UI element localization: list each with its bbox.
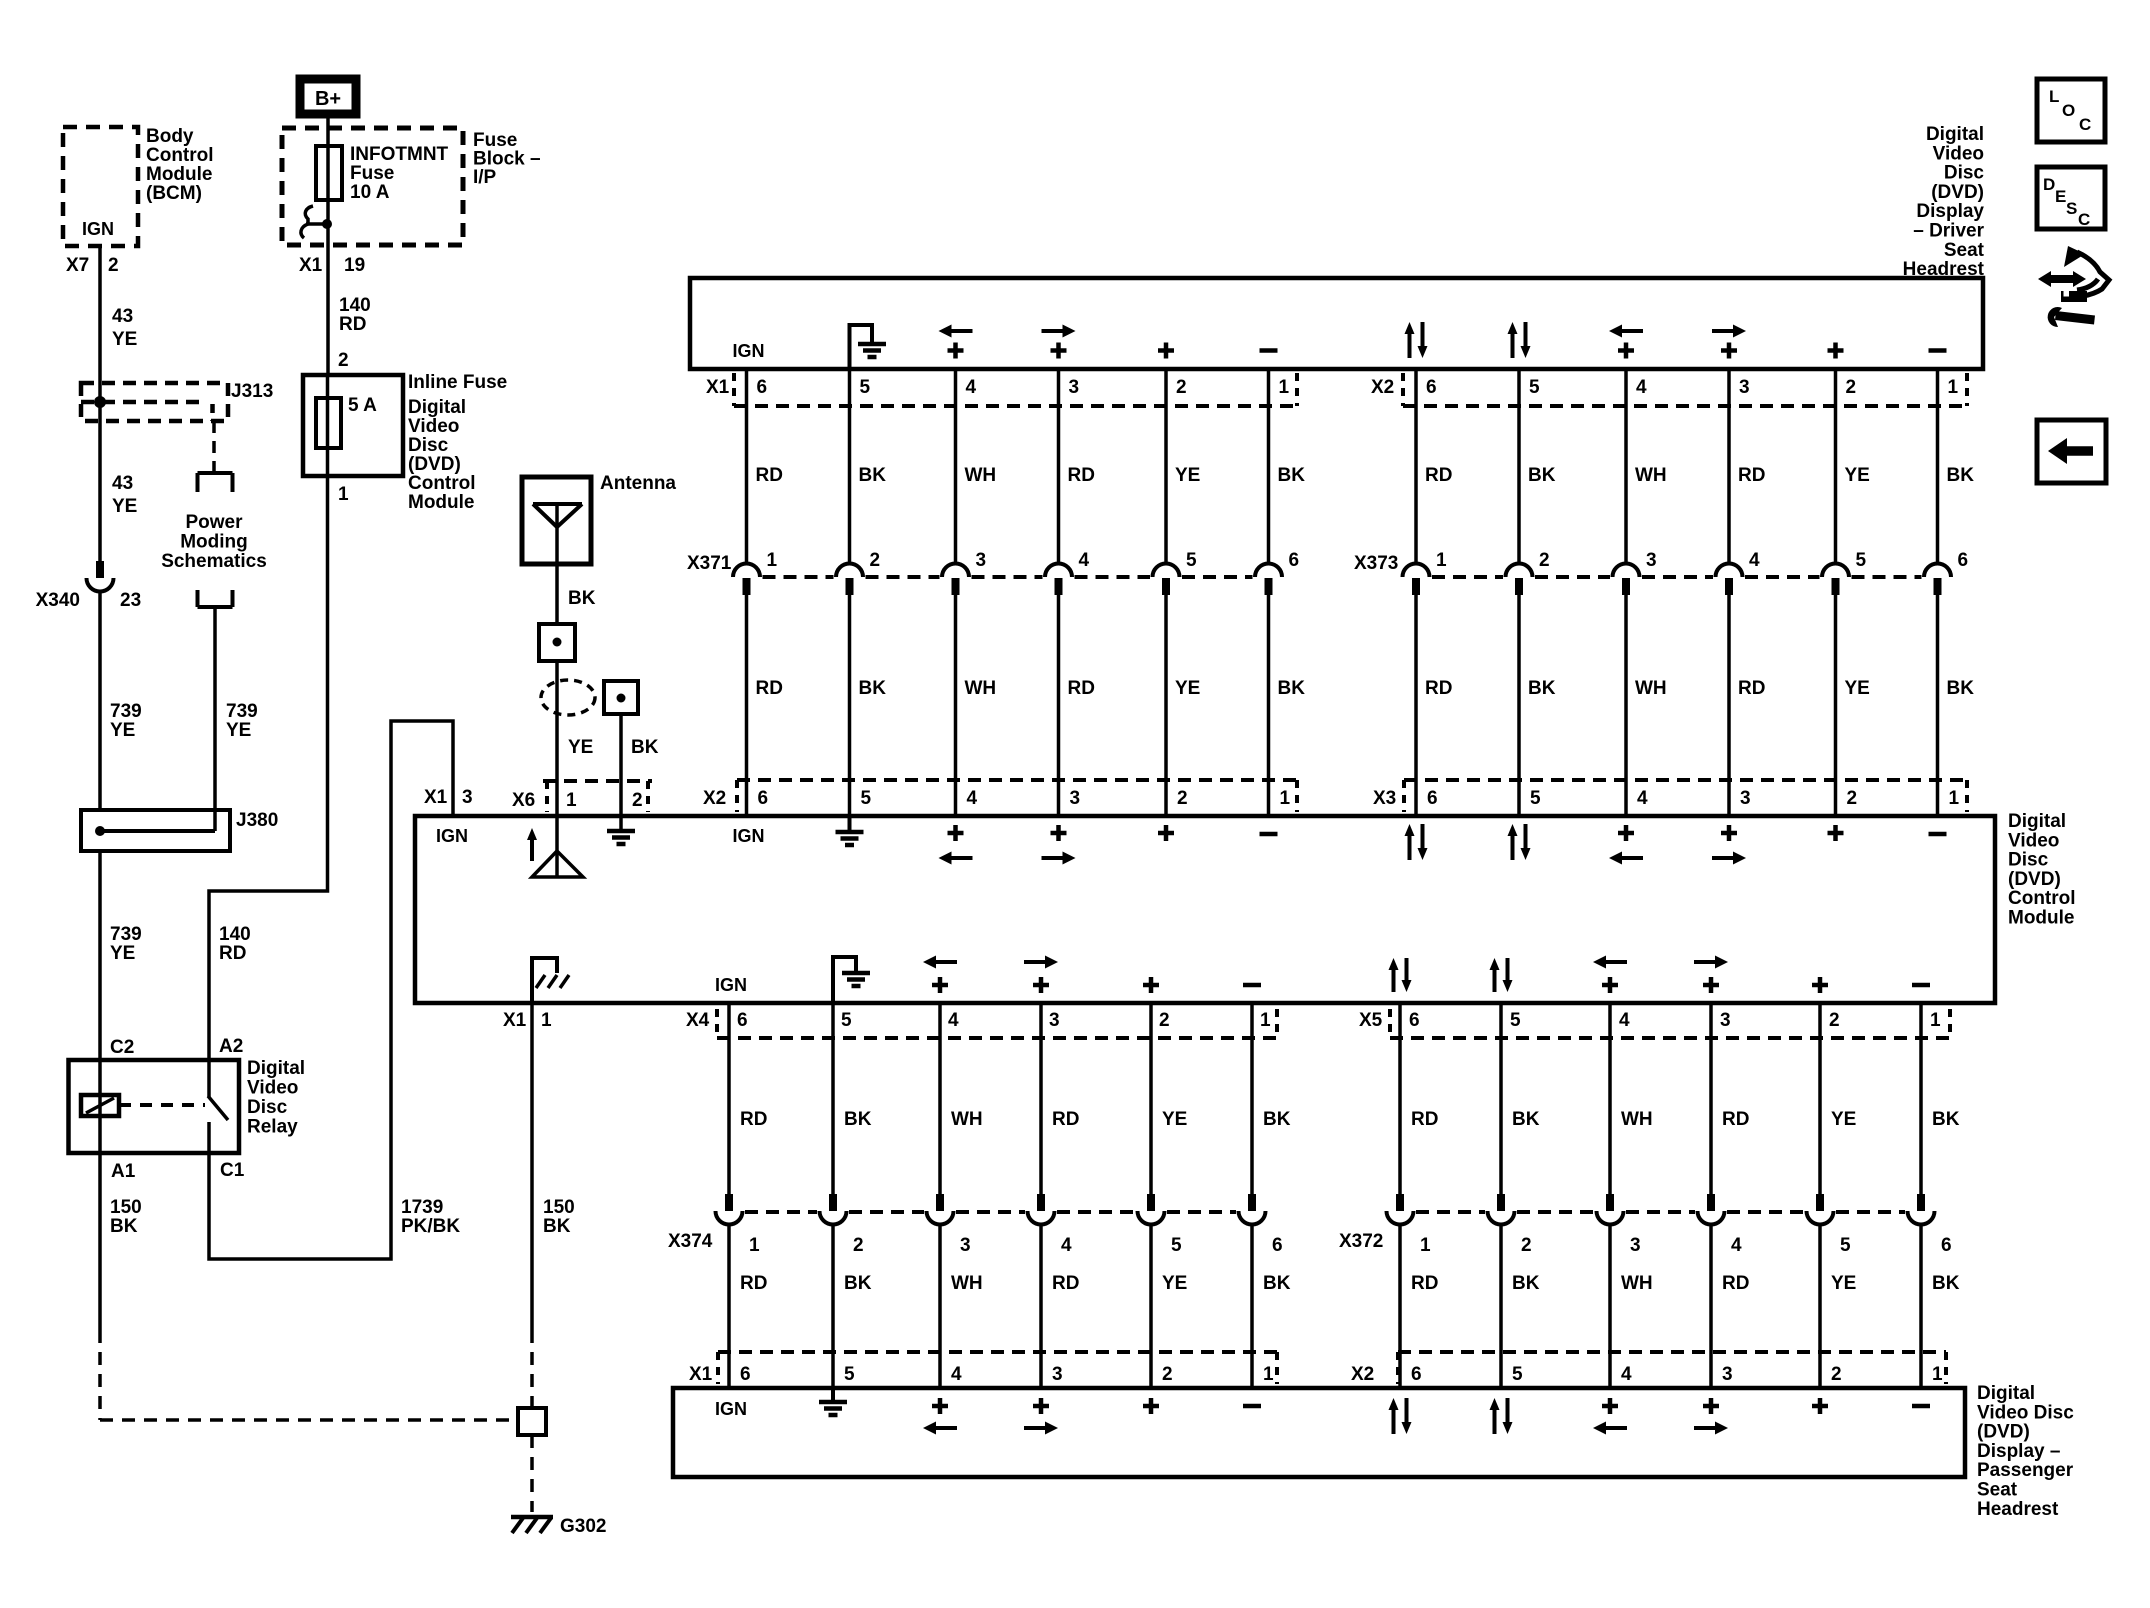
svg-text:BK: BK bbox=[110, 1216, 138, 1237]
connector X374 row bbox=[668, 1194, 1283, 1256]
svg-text:YE: YE bbox=[1845, 678, 1870, 699]
svg-text:3: 3 bbox=[960, 1235, 971, 1256]
wire from connector to shield splice bbox=[555, 661, 559, 816]
svg-text:6: 6 bbox=[1409, 1010, 1420, 1031]
ground splice box bbox=[518, 1408, 546, 1435]
svg-text:4: 4 bbox=[1061, 1235, 1072, 1256]
svg-text:RD: RD bbox=[1425, 678, 1452, 699]
svg-text:RD: RD bbox=[740, 1273, 767, 1294]
label Power Moding Schematics bbox=[161, 512, 267, 572]
svg-text:6: 6 bbox=[758, 788, 769, 809]
svg-text:YE: YE bbox=[568, 737, 593, 758]
svg-text:BK: BK bbox=[1528, 678, 1556, 699]
svg-text:Moding: Moding bbox=[180, 532, 248, 553]
svg-text:1: 1 bbox=[1932, 1364, 1943, 1385]
svg-text:X2: X2 bbox=[1351, 1364, 1374, 1385]
svg-text:3: 3 bbox=[1070, 788, 1081, 809]
svg-text:Module: Module bbox=[408, 492, 475, 513]
svg-text:2: 2 bbox=[632, 790, 643, 811]
svg-text:Digital: Digital bbox=[2008, 811, 2066, 832]
svg-text:3: 3 bbox=[1739, 377, 1750, 398]
label Digital Video Disc (DVD) Display - Driver Seat Headrest bbox=[1903, 124, 1985, 280]
svg-text:L: L bbox=[2049, 87, 2059, 106]
svg-text:1: 1 bbox=[1949, 788, 1960, 809]
svg-text:Video: Video bbox=[408, 416, 459, 437]
svg-text:– Driver: – Driver bbox=[1913, 221, 1984, 242]
connector X2 row (passenger module) bbox=[1351, 1352, 1946, 1385]
svg-text:YE: YE bbox=[226, 720, 251, 741]
svg-text:RD: RD bbox=[756, 465, 783, 486]
svg-text:RD: RD bbox=[1738, 465, 1765, 486]
svg-text:INFOTMNT: INFOTMNT bbox=[350, 144, 449, 165]
svg-text:43: 43 bbox=[112, 473, 133, 494]
svg-text:X1: X1 bbox=[299, 255, 323, 276]
relay actuating dashed link bbox=[119, 1103, 205, 1107]
svg-text:4: 4 bbox=[967, 788, 978, 809]
svg-text:4: 4 bbox=[1637, 788, 1648, 809]
svg-text:BK: BK bbox=[859, 465, 887, 486]
svg-text:BK: BK bbox=[844, 1273, 872, 1294]
svg-text:YE: YE bbox=[110, 943, 135, 964]
module: DVD Display - Passenger Seat Headrest box bbox=[673, 1388, 1965, 1477]
module: Inline Fuse box bbox=[303, 375, 403, 476]
svg-text:BK: BK bbox=[1932, 1273, 1960, 1294]
label Digital Video Disc Relay bbox=[247, 1058, 305, 1138]
svg-text:Seat: Seat bbox=[1944, 240, 1985, 261]
connector X1 row (top module) bbox=[706, 373, 1297, 406]
wire color labels (third run) bbox=[740, 1109, 1960, 1130]
svg-text:YE: YE bbox=[1162, 1273, 1187, 1294]
pin label IGN inside BCM bbox=[82, 219, 114, 239]
svg-text:5: 5 bbox=[860, 377, 871, 398]
svg-text:RD: RD bbox=[339, 314, 366, 335]
label G302 bbox=[560, 1516, 606, 1537]
svg-text:3: 3 bbox=[1069, 377, 1080, 398]
label Digital Video Disc (DVD) Display - Passenger Seat Headrest bbox=[1977, 1383, 2074, 1520]
svg-text:X2: X2 bbox=[1371, 377, 1394, 398]
svg-text:RD: RD bbox=[1425, 465, 1452, 486]
junction dot on wire in J313 bbox=[94, 396, 106, 408]
label Fuse Block - I/P bbox=[473, 130, 541, 188]
svg-text:(BCM): (BCM) bbox=[146, 183, 202, 204]
svg-text:YE: YE bbox=[112, 496, 137, 517]
svg-text:WH: WH bbox=[1635, 678, 1667, 699]
svg-text:WH: WH bbox=[1621, 1273, 1653, 1294]
svg-text:IGN: IGN bbox=[436, 826, 468, 846]
connector X1 pin 19 labels bbox=[299, 255, 365, 276]
wire label 150 BK (right) bbox=[543, 1197, 575, 1237]
label 5 A bbox=[348, 395, 377, 416]
inline fuse pin 1 label bbox=[338, 484, 349, 505]
wire from B+ into fuse block bbox=[326, 116, 330, 146]
label J313 bbox=[231, 381, 273, 402]
svg-text:Disc: Disc bbox=[408, 435, 449, 456]
relay switch blade and contacts bbox=[208, 1060, 228, 1153]
relay coil wire (C2-A1 through) bbox=[98, 1060, 102, 1153]
svg-text:B+: B+ bbox=[315, 88, 341, 110]
svg-text:Disc: Disc bbox=[247, 1097, 288, 1118]
svg-text:2: 2 bbox=[870, 550, 881, 571]
svg-text:RD: RD bbox=[1722, 1109, 1749, 1130]
svg-text:Body: Body bbox=[146, 126, 194, 147]
svg-text:D: D bbox=[2043, 175, 2055, 194]
svg-text:X7: X7 bbox=[66, 255, 89, 276]
svg-text:X1: X1 bbox=[706, 377, 730, 398]
svg-text:O: O bbox=[2062, 101, 2075, 120]
wire 739 YE from J380 down to relay C2 bbox=[98, 851, 102, 1062]
svg-text:X371: X371 bbox=[687, 553, 732, 574]
svg-text:6: 6 bbox=[740, 1364, 751, 1385]
svg-text:Disc: Disc bbox=[1944, 163, 1985, 184]
svg-text:(DVD): (DVD) bbox=[2008, 869, 2061, 890]
svg-text:BK: BK bbox=[568, 588, 596, 609]
passenger module pin function symbols bbox=[715, 1388, 1930, 1435]
inline fuse pin 2 label bbox=[338, 350, 349, 371]
svg-text:RD: RD bbox=[219, 943, 246, 964]
antenna box bbox=[522, 477, 591, 564]
shield splice dashed ellipse bbox=[541, 680, 595, 715]
svg-text:X3: X3 bbox=[1373, 788, 1396, 809]
svg-text:RD: RD bbox=[1068, 678, 1095, 699]
svg-text:Digital: Digital bbox=[1926, 124, 1984, 145]
svg-text:739: 739 bbox=[226, 701, 258, 722]
svg-text:6: 6 bbox=[1958, 550, 1969, 571]
svg-text:(DVD): (DVD) bbox=[1931, 182, 1984, 203]
svg-text:YE: YE bbox=[1831, 1109, 1856, 1130]
connector X340 labels bbox=[36, 590, 142, 611]
svg-text:YE: YE bbox=[1831, 1273, 1856, 1294]
wire 140 RD from fuse block to inline fuse bbox=[326, 246, 330, 375]
svg-text:3: 3 bbox=[1720, 1010, 1731, 1031]
svg-text:5: 5 bbox=[1512, 1364, 1523, 1385]
connector X1 pin 1 labels (control module bottom) bbox=[503, 1010, 552, 1031]
connector X5 row bbox=[1359, 1009, 1950, 1038]
label Digital Video Disc (DVD) Control Module bbox=[2008, 811, 2076, 929]
svg-text:1: 1 bbox=[566, 790, 577, 811]
svg-text:5: 5 bbox=[844, 1364, 855, 1385]
relay: Digital Video Disc Relay box bbox=[69, 1060, 240, 1153]
svg-text:2: 2 bbox=[1831, 1364, 1842, 1385]
svg-text:BK: BK bbox=[1278, 465, 1306, 486]
svg-text:4: 4 bbox=[1636, 377, 1647, 398]
svg-text:2: 2 bbox=[1177, 788, 1188, 809]
svg-text:6: 6 bbox=[1272, 1235, 1283, 1256]
module: DVD Display - Driver Seat Headrest box bbox=[690, 278, 1983, 369]
svg-text:Control: Control bbox=[146, 145, 214, 166]
connector X1 row (passenger module) bbox=[689, 1352, 1277, 1385]
svg-text:RD: RD bbox=[1052, 1273, 1079, 1294]
control module top-edge pin symbols bbox=[436, 816, 1947, 865]
dashed ground wire from relay A1 to splice box bbox=[100, 1330, 516, 1420]
svg-text:BK: BK bbox=[859, 678, 887, 699]
svg-text:10 A: 10 A bbox=[350, 182, 390, 203]
control module bottom-edge pin symbols bbox=[715, 956, 1930, 1004]
antenna inline connector box bbox=[539, 624, 575, 661]
wire color labels (fourth run) bbox=[740, 1273, 1960, 1294]
connection hook symbol in fuse block bbox=[301, 206, 332, 238]
antenna symbol bbox=[533, 504, 582, 527]
svg-text:1: 1 bbox=[1930, 1010, 1941, 1031]
svg-text:WH: WH bbox=[965, 465, 997, 486]
svg-text:1739: 1739 bbox=[401, 1197, 443, 1218]
svg-text:Headrest: Headrest bbox=[1977, 1499, 2059, 1520]
svg-text:1: 1 bbox=[1420, 1235, 1431, 1256]
connector X340 pin 23 bbox=[87, 561, 114, 592]
svg-text:J313: J313 bbox=[231, 381, 273, 402]
connector X371 row bbox=[687, 550, 1299, 595]
off-page bracket (top) to Power Moding Schematics bbox=[198, 473, 233, 492]
svg-text:1: 1 bbox=[1279, 377, 1290, 398]
ground symbol below X6 pin 2 bbox=[607, 831, 635, 844]
svg-text:6: 6 bbox=[1289, 550, 1300, 571]
svg-text:1: 1 bbox=[338, 484, 349, 505]
relay terminal labels C2 A2 bbox=[110, 1036, 243, 1058]
svg-text:Schematics: Schematics bbox=[161, 551, 267, 572]
wire label 43 YE (lower) bbox=[112, 473, 137, 517]
wire label 150 BK (left) bbox=[110, 1197, 142, 1237]
wires from control module X4/X5 down to X374/X372 bbox=[729, 1003, 1921, 1195]
wire labels YE and BK bbox=[568, 737, 659, 758]
svg-text:X5: X5 bbox=[1359, 1010, 1383, 1031]
wire color labels (top run) bbox=[756, 465, 1975, 486]
svg-text:C2: C2 bbox=[110, 1037, 134, 1058]
svg-text:X1: X1 bbox=[424, 787, 448, 808]
svg-text:YE: YE bbox=[110, 720, 135, 741]
svg-text:RD: RD bbox=[756, 678, 783, 699]
svg-text:2: 2 bbox=[108, 255, 119, 276]
connector X372 row bbox=[1339, 1194, 1952, 1256]
module: Fuse Block - I/P dashed box bbox=[282, 128, 463, 245]
svg-text:RD: RD bbox=[740, 1109, 767, 1130]
wire color labels (second run) bbox=[756, 678, 1975, 699]
svg-text:BK: BK bbox=[1932, 1109, 1960, 1130]
svg-text:Module: Module bbox=[146, 164, 213, 185]
svg-text:X340: X340 bbox=[36, 590, 80, 611]
junction dot in J380 bbox=[95, 826, 105, 836]
wire label 43 YE (upper) bbox=[112, 306, 137, 350]
svg-text:150: 150 bbox=[110, 1197, 142, 1218]
svg-text:BK: BK bbox=[1528, 465, 1556, 486]
svg-text:RD: RD bbox=[1738, 678, 1765, 699]
svg-text:5: 5 bbox=[1510, 1010, 1521, 1031]
svg-text:23: 23 bbox=[120, 590, 141, 611]
svg-text:1: 1 bbox=[749, 1235, 760, 1256]
svg-text:2: 2 bbox=[1829, 1010, 1840, 1031]
connector X3 row (control module top) bbox=[1373, 780, 1967, 812]
svg-text:3: 3 bbox=[1049, 1010, 1060, 1031]
svg-text:2: 2 bbox=[1539, 550, 1550, 571]
svg-text:IGN: IGN bbox=[715, 1399, 747, 1419]
svg-text:X373: X373 bbox=[1354, 553, 1398, 574]
splice J380 box bbox=[81, 810, 230, 851]
svg-text:WH: WH bbox=[951, 1109, 983, 1130]
svg-text:2: 2 bbox=[853, 1235, 864, 1256]
svg-text:3: 3 bbox=[1630, 1235, 1641, 1256]
wire 140 RD from inline fuse to relay A2 bbox=[209, 476, 328, 1062]
control module X1-1 internal ground bbox=[532, 958, 569, 1003]
wire label BK (antenna) bbox=[568, 588, 596, 609]
svg-text:5: 5 bbox=[1186, 550, 1197, 571]
svg-text:Fuse: Fuse bbox=[350, 163, 394, 184]
svg-text:YE: YE bbox=[1175, 678, 1200, 699]
svg-text:IGN: IGN bbox=[732, 826, 764, 846]
wire label 140 RD (lower) bbox=[219, 924, 251, 964]
svg-text:X374: X374 bbox=[668, 1231, 713, 1252]
svg-text:4: 4 bbox=[951, 1364, 962, 1385]
svg-text:2: 2 bbox=[1846, 377, 1857, 398]
svg-text:6: 6 bbox=[757, 377, 768, 398]
svg-text:WH: WH bbox=[951, 1273, 983, 1294]
svg-text:X1: X1 bbox=[503, 1010, 527, 1031]
ground G302 chassis ground symbol bbox=[511, 1517, 553, 1533]
svg-text:4: 4 bbox=[1731, 1235, 1742, 1256]
svg-text:C1: C1 bbox=[220, 1160, 245, 1181]
svg-text:BK: BK bbox=[1278, 678, 1306, 699]
svg-text:4: 4 bbox=[1621, 1364, 1632, 1385]
connector X7 pin 2 labels bbox=[66, 255, 119, 276]
svg-text:YE: YE bbox=[112, 329, 137, 350]
svg-text:(DVD): (DVD) bbox=[408, 454, 461, 475]
svg-text:2: 2 bbox=[1159, 1010, 1170, 1031]
svg-text:4: 4 bbox=[948, 1010, 959, 1031]
wire label 1739 PK/BK bbox=[401, 1197, 460, 1237]
svg-text:Video: Video bbox=[247, 1078, 298, 1099]
wire 1739 PK/BK from relay C1 to DVD control module X1-3 bbox=[209, 721, 453, 1259]
svg-text:BK: BK bbox=[543, 1216, 571, 1237]
svg-text:1: 1 bbox=[1436, 550, 1447, 571]
svg-text:(DVD): (DVD) bbox=[1977, 1422, 2030, 1443]
svg-text:RD: RD bbox=[1722, 1273, 1749, 1294]
connector X6 dashed box and labels bbox=[543, 781, 652, 812]
svg-text:6: 6 bbox=[1427, 788, 1438, 809]
svg-text:Video Disc: Video Disc bbox=[1977, 1402, 2074, 1423]
label Body Control Module (BCM) bbox=[146, 126, 214, 204]
module: Body Control Module (BCM) dashed box bbox=[63, 127, 138, 246]
svg-text:6: 6 bbox=[1426, 377, 1437, 398]
svg-text:5: 5 bbox=[1530, 788, 1541, 809]
wire 150 BK from relay A1 down bbox=[98, 1153, 102, 1330]
svg-text:IGN: IGN bbox=[715, 975, 747, 995]
dashed wire from splice box to G302 bbox=[530, 1435, 534, 1512]
svg-text:1: 1 bbox=[541, 1010, 552, 1031]
svg-text:RD: RD bbox=[1411, 1273, 1438, 1294]
svg-text:BK: BK bbox=[1512, 1273, 1540, 1294]
svg-text:3: 3 bbox=[976, 550, 987, 571]
svg-text:X2: X2 bbox=[703, 788, 726, 809]
svg-text:X6: X6 bbox=[512, 790, 535, 811]
svg-text:BK: BK bbox=[1947, 465, 1975, 486]
svg-text:PK/BK: PK/BK bbox=[401, 1216, 460, 1237]
label Inline Fuse Digital Video Disc (DVD) Control Module bbox=[408, 372, 507, 513]
svg-text:RD: RD bbox=[1411, 1109, 1438, 1130]
wires from top module X1/X2 down to X371/X373 bbox=[747, 369, 1938, 564]
svg-text:3: 3 bbox=[462, 787, 473, 808]
svg-text:Digital: Digital bbox=[1977, 1383, 2035, 1404]
svg-text:X372: X372 bbox=[1339, 1231, 1383, 1252]
wires from X374/X372 down to passenger display module bbox=[729, 1224, 1921, 1388]
svg-text:Control: Control bbox=[408, 473, 476, 494]
svg-text:Headrest: Headrest bbox=[1903, 259, 1985, 280]
svg-text:1: 1 bbox=[1948, 377, 1959, 398]
svg-text:5: 5 bbox=[1171, 1235, 1182, 1256]
svg-text:1: 1 bbox=[1260, 1010, 1271, 1031]
svg-text:1: 1 bbox=[1263, 1364, 1274, 1385]
svg-text:Video: Video bbox=[1933, 143, 1984, 164]
svg-text:RD: RD bbox=[1052, 1109, 1079, 1130]
svg-text:Control: Control bbox=[2008, 888, 2076, 909]
wire BK drain to ground bbox=[619, 714, 623, 829]
svg-text:3: 3 bbox=[1052, 1364, 1063, 1385]
connector X4 row bbox=[686, 1009, 1277, 1038]
label INFOTMNT Fuse 10 A bbox=[350, 144, 449, 203]
wire label 739 YE (below J380) bbox=[110, 924, 142, 964]
svg-text:Display –: Display – bbox=[1977, 1441, 2060, 1462]
svg-text:WH: WH bbox=[1635, 465, 1667, 486]
svg-text:YE: YE bbox=[1175, 465, 1200, 486]
svg-text:BK: BK bbox=[1947, 678, 1975, 699]
svg-text:5: 5 bbox=[1840, 1235, 1851, 1256]
svg-text:C: C bbox=[2078, 210, 2090, 229]
svg-text:C: C bbox=[2079, 115, 2091, 134]
svg-text:A1: A1 bbox=[111, 1161, 136, 1182]
dashed branch wire from J313 to Power Moding Schematics bbox=[212, 421, 216, 471]
module: Digital Video Disc (DVD) Control Module box bbox=[415, 816, 1995, 1003]
svg-text:2: 2 bbox=[1847, 788, 1858, 809]
svg-text:BK: BK bbox=[631, 737, 659, 758]
svg-text:5: 5 bbox=[861, 788, 872, 809]
icon vehicle data with wrench bbox=[2038, 246, 2109, 327]
wire 739 YE from Power Moding Schematics down to J380 bbox=[213, 609, 217, 831]
icon back arrow box bbox=[2037, 420, 2106, 483]
svg-text:3: 3 bbox=[1722, 1364, 1733, 1385]
svg-text:3: 3 bbox=[1646, 550, 1657, 571]
svg-text:Digital: Digital bbox=[247, 1058, 305, 1079]
svg-text:Relay: Relay bbox=[247, 1117, 298, 1138]
wire 43 YE from BCM X7-2 down to X340 bbox=[98, 246, 102, 561]
svg-text:Video: Video bbox=[2008, 830, 2059, 851]
label J380 bbox=[236, 810, 278, 831]
power feed B+ box bbox=[300, 79, 356, 114]
wire label 739 YE (left) bbox=[110, 701, 142, 741]
svg-text:5: 5 bbox=[841, 1010, 852, 1031]
svg-text:BK: BK bbox=[1263, 1109, 1291, 1130]
svg-text:RD: RD bbox=[1068, 465, 1095, 486]
wire label 140 RD (upper) bbox=[339, 295, 371, 335]
wire label 739 YE (right) bbox=[226, 701, 258, 741]
svg-text:4: 4 bbox=[1619, 1010, 1630, 1031]
fuse 5A symbol bbox=[316, 375, 341, 476]
svg-text:6: 6 bbox=[1941, 1235, 1952, 1256]
connector X1 pin 3 labels (control module top) bbox=[424, 787, 473, 808]
splice J313 dashed box bbox=[81, 383, 228, 421]
svg-text:140: 140 bbox=[339, 295, 371, 316]
svg-text:X1: X1 bbox=[689, 1364, 713, 1385]
svg-text:WH: WH bbox=[965, 678, 997, 699]
svg-text:Inline Fuse: Inline Fuse bbox=[408, 372, 507, 393]
icon DESC box bbox=[2037, 167, 2105, 229]
svg-text:4: 4 bbox=[1749, 550, 1760, 571]
fuse INFOTMNT 10A symbol bbox=[316, 146, 342, 200]
wire from fuse to X1-19 bbox=[326, 200, 330, 246]
svg-text:Passenger: Passenger bbox=[1977, 1460, 2074, 1481]
icon LOC box bbox=[2037, 79, 2105, 142]
svg-text:Display: Display bbox=[1916, 201, 1984, 222]
top module pin function symbols (IGN, ground, +/- , arrows) bbox=[732, 322, 1946, 369]
svg-text:Antenna: Antenna bbox=[600, 473, 676, 494]
svg-text:Power: Power bbox=[185, 512, 243, 533]
svg-text:G302: G302 bbox=[560, 1516, 606, 1537]
svg-text:43: 43 bbox=[112, 306, 133, 327]
